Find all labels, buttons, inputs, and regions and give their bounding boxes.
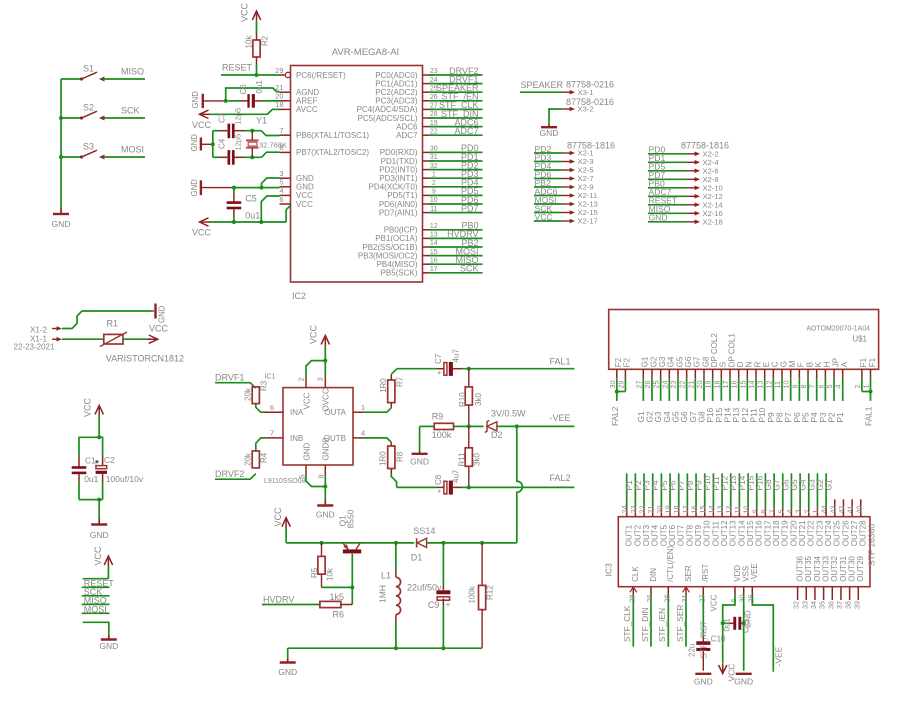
net RESET <box>221 63 280 78</box>
svg-text:44: 44 <box>820 506 829 514</box>
svg-text:28: 28 <box>430 111 438 118</box>
svg-text:G4: G4 <box>667 356 676 367</box>
connector pin X2-13 net MOSI <box>534 195 598 209</box>
svg-text:/CTL(/EN): /CTL(/EN) <box>666 545 675 581</box>
net RESET stub <box>82 578 115 588</box>
svg-text:S3: S3 <box>83 142 94 152</box>
svg-text:VCC: VCC <box>273 507 283 527</box>
IC2 pin 11 PD7(AIN1) net PD7 <box>379 203 483 217</box>
svg-text:13: 13 <box>756 381 765 389</box>
inductor L1 <box>378 543 401 648</box>
svg-text:G7: G7 <box>693 356 702 367</box>
svg-text:VCC: VCC <box>296 200 313 209</box>
svg-text:G1: G1 <box>824 479 834 490</box>
connector X1-2 <box>30 311 152 335</box>
svg-text:3k0: 3k0 <box>474 393 483 406</box>
IC2 pin 16 PB4(MISO) net MISO <box>377 255 483 269</box>
svg-text:10: 10 <box>782 381 791 389</box>
connector pin X2-7 net PD6 <box>534 169 594 183</box>
U$1 pin 18 S net P15 <box>712 362 727 423</box>
ground X1 <box>152 304 167 324</box>
IC3 pin 38 OUT30 <box>844 555 857 609</box>
svg-text:X2-18: X2-18 <box>703 217 723 226</box>
IC3 pin 9 OUT16 net P16 <box>750 473 764 546</box>
svg-text:F1: F1 <box>868 357 877 367</box>
svg-text:SER: SER <box>684 565 693 582</box>
IC2 pin 3 GND <box>279 169 314 183</box>
svg-text:11: 11 <box>773 381 782 388</box>
svg-text:VCC: VCC <box>710 594 719 611</box>
svg-text:39: 39 <box>852 601 861 609</box>
ground VSS <box>734 674 753 687</box>
svg-text:R5: R5 <box>310 567 319 578</box>
supply VCC R2 <box>240 2 261 34</box>
ground AGND <box>191 91 203 109</box>
svg-text:C2: C2 <box>104 455 115 465</box>
svg-text:SS14: SS14 <box>413 526 435 536</box>
IC2 pin 15 PB3(MOSI/OC2) net MOSI <box>358 246 483 260</box>
IC2 pin 31 PD1(TXD) net PD1 <box>381 152 483 166</box>
svg-text:IC2: IC2 <box>292 291 306 301</box>
svg-text:VCC: VCC <box>93 546 103 566</box>
svg-text:OUT22: OUT22 <box>807 520 816 546</box>
svg-text:20: 20 <box>655 506 664 514</box>
svg-text:G8: G8 <box>701 356 710 367</box>
svg-text:R8: R8 <box>396 451 405 462</box>
svg-text:OUT26: OUT26 <box>841 520 850 546</box>
connector pin X2-6 net PD5 <box>648 162 719 176</box>
svg-text:L1: L1 <box>381 571 391 581</box>
wire pin5/8 to GND <box>306 475 327 501</box>
IC3 pin 21 OUT4 net P4 <box>646 473 660 546</box>
svg-text:OUT20: OUT20 <box>789 520 798 546</box>
svg-text:100k: 100k <box>432 430 452 440</box>
supply VCC AVCC <box>192 109 280 130</box>
connector pin X2-8 net PD7 <box>648 170 719 184</box>
svg-text:VCC: VCC <box>83 397 93 417</box>
svg-text:OUT18: OUT18 <box>772 520 781 546</box>
svg-text:PB7(XTAL2/TOSC2): PB7(XTAL2/TOSC2) <box>296 148 369 157</box>
transistor Q1 8550 PNP <box>338 509 362 553</box>
svg-text:GND: GND <box>694 677 713 687</box>
svg-text:R11: R11 <box>458 452 467 467</box>
IC3 pin 27 /RST <box>697 563 710 602</box>
supply VCC converter <box>273 507 290 543</box>
svg-text:GND: GND <box>190 179 199 197</box>
connector pin X2-5 net PD4 <box>534 161 594 175</box>
IC2 pin 27 PC4(ADC4/SDA) net STF_CLK <box>357 100 483 114</box>
svg-text:R: R <box>753 361 762 367</box>
IC3 pin 36 OUT32 <box>826 555 839 609</box>
svg-text:20k: 20k <box>244 452 253 466</box>
svg-text:VARISTORCN1812: VARISTORCN1812 <box>106 354 184 364</box>
IC2 pin 28 PC5(ADC5/SCL) net STF_DIN <box>357 109 482 123</box>
svg-text:+: + <box>446 600 451 609</box>
svg-text:OUT28: OUT28 <box>859 520 868 546</box>
svg-text:Y1: Y1 <box>256 116 267 126</box>
svg-text:G3: G3 <box>658 356 667 367</box>
varistor R1 <box>100 319 184 364</box>
svg-text:S1: S1 <box>83 64 94 74</box>
svg-text:OUT32: OUT32 <box>830 555 839 581</box>
IC2 pin 19 ADC6 net ADC6 <box>396 117 482 131</box>
resistor R10 <box>458 369 483 427</box>
svg-text:HVDRV: HVDRV <box>263 595 294 605</box>
svg-text:R4: R4 <box>260 452 269 463</box>
IC3 pin 28 CLK net STF_CLK <box>622 566 640 647</box>
svg-text:-VEE: -VEE <box>750 563 759 582</box>
svg-text:1R0: 1R0 <box>379 451 388 466</box>
U$1 pin 25 G3 net G3 <box>652 356 667 422</box>
svg-text:OUT7: OUT7 <box>677 524 686 546</box>
svg-text:10k: 10k <box>326 567 335 581</box>
IC2 pin 12 PB0(ICP) net PB0 <box>384 221 483 235</box>
svg-text:-VEE: -VEE <box>550 413 571 423</box>
svg-text:21: 21 <box>646 506 655 514</box>
IC3 pin 23 OUT2 net P2 <box>629 473 643 546</box>
IC2 pin 29 PC6(/RESET) <box>275 66 346 80</box>
svg-text:OUT21: OUT21 <box>798 520 807 546</box>
IC3 pin 41 OUT27 <box>846 499 859 546</box>
U$1 pin 2 F1 <box>853 357 868 388</box>
capacitor C10 on /RST <box>688 595 727 670</box>
svg-text:C9: C9 <box>428 600 440 610</box>
svg-text:10: 10 <box>742 506 751 514</box>
svg-text:11: 11 <box>733 506 742 513</box>
driver IC3 STF16360 box <box>604 517 877 587</box>
svg-text:FAL2: FAL2 <box>610 406 620 426</box>
svg-text:0u1: 0u1 <box>723 618 732 632</box>
svg-text:SCK: SCK <box>460 264 479 274</box>
svg-text:25: 25 <box>746 595 755 603</box>
net MOSI stub <box>82 604 110 614</box>
IC3 pin 7 OUT18 net G7 <box>768 473 782 546</box>
wire switch common <box>60 79 62 208</box>
connector pin X2-18 net GND <box>648 213 723 227</box>
U$1 pin 30 F2 <box>608 357 623 388</box>
U$1 pin 5 JP net P2 <box>825 358 840 423</box>
IC3 pin 34 OUT34 <box>809 555 822 609</box>
svg-text:7: 7 <box>768 510 777 514</box>
svg-text:R3: R3 <box>260 380 269 391</box>
svg-text:VCC: VCC <box>309 324 319 344</box>
IC3 pin 26 DIN net STF_DIN <box>640 568 658 647</box>
U$1 pin 27 G1 net G1 <box>634 356 649 422</box>
wire AGND to pin21 <box>226 88 280 101</box>
capacitor C2 <box>95 437 144 499</box>
svg-text:26: 26 <box>645 595 654 603</box>
IC3 pin 14 OUT11 net P11 <box>707 473 721 546</box>
svg-text:OUT13: OUT13 <box>729 520 738 546</box>
wire gnd rail <box>288 646 482 658</box>
svg-text:OUT27: OUT27 <box>850 520 859 546</box>
svg-text:OUT34: OUT34 <box>813 555 822 581</box>
svg-text:G2: G2 <box>649 356 658 367</box>
svg-text:C8: C8 <box>434 474 443 485</box>
connector pin X2-4 net PD1 <box>648 153 719 167</box>
supply VCC X1 <box>148 324 169 344</box>
svg-text:DIN: DIN <box>649 568 658 582</box>
IC2 pin 14 PB2(SS/OC1B) net PB2 <box>362 238 482 252</box>
svg-text:C3: C3 <box>218 112 227 123</box>
capacitor C8 <box>434 469 462 498</box>
IC3 pin 32 OUT36 <box>792 555 805 609</box>
svg-text:18: 18 <box>712 381 721 389</box>
IC2 pin 9 PD5(T1) net PD5 <box>387 186 482 200</box>
svg-text:-VEE: -VEE <box>774 646 784 666</box>
svg-text:AVR-MEGA8-AI: AVR-MEGA8-AI <box>332 47 399 58</box>
connector X1-1 <box>14 335 104 352</box>
IC1 pin 3 VCC <box>316 377 331 411</box>
U$1 pin 1 F1 <box>862 357 877 388</box>
U$1 pin 9 F net P6 <box>790 362 805 422</box>
svg-text:OUT4: OUT4 <box>651 524 660 546</box>
IC2 pin 7 PB6(XTAL1/TOSC1) <box>279 126 369 140</box>
svg-text:OUT8: OUT8 <box>685 524 694 546</box>
svg-text:14: 14 <box>747 381 756 389</box>
svg-text:OUT14: OUT14 <box>737 520 746 546</box>
svg-text:OUT35: OUT35 <box>804 555 813 581</box>
svg-text:STF_/EN: STF_/EN <box>657 608 667 642</box>
svg-text:10k: 10k <box>245 35 254 49</box>
svg-text:STF_DIN: STF_DIN <box>640 607 650 642</box>
resistor R12 <box>468 543 495 648</box>
svg-text:22: 22 <box>678 381 687 389</box>
svg-text:27: 27 <box>430 103 438 110</box>
IC3 pin 1 OUT23 net G2 <box>811 473 825 546</box>
IC2 pin 13 PB1(OC1A) net HVDRV <box>375 229 482 243</box>
svg-text:8: 8 <box>799 385 808 389</box>
ground R9 <box>410 426 429 466</box>
supply VCC IC1 <box>309 324 330 377</box>
IC3 pin 42 OUT26 <box>837 499 850 546</box>
IC2 pin 17 PB5(SCK) net SCK <box>381 264 483 278</box>
svg-text:SCK: SCK <box>121 106 140 116</box>
wire U$1 F2 join net FAL2 <box>610 378 626 426</box>
connector pin X2-1 net PD2 <box>534 144 594 158</box>
svg-text:R1: R1 <box>107 319 119 329</box>
svg-text:15: 15 <box>738 381 747 389</box>
junction <box>59 116 63 159</box>
junction XTAL <box>250 129 254 160</box>
U$1 pin 10 M net P7 <box>782 360 797 422</box>
connector pin X2-10 net PB0 <box>648 179 723 193</box>
svg-text:JP: JP <box>831 358 840 367</box>
IC3 pin 30 VSS <box>738 566 751 603</box>
svg-text:OVCC: OVCC <box>322 388 331 411</box>
svg-text:P1: P1 <box>835 412 845 423</box>
U$1 pin 21 G7 net G7 <box>686 356 701 422</box>
IC2 pin 32 PD2(INT0) net PD2 <box>379 160 482 174</box>
IC2 pin 23 PC0(ADC0) net DRVF2 <box>375 66 482 80</box>
svg-text:6: 6 <box>729 599 738 603</box>
IC3 pin 20 OUT5 net P5 <box>655 473 669 546</box>
svg-text:GND: GND <box>99 641 118 651</box>
IC3 pin 25 -VEE <box>746 563 759 602</box>
U$1 pin 24 G4 net G4 <box>660 356 675 422</box>
svg-text:E: E <box>762 362 771 367</box>
wire XTAL1 net <box>213 131 280 136</box>
svg-text:6: 6 <box>270 403 274 412</box>
svg-text:AOTOM20070-1A04: AOTOM20070-1A04 <box>806 326 870 333</box>
IC1 pin 5 GND <box>298 443 312 479</box>
svg-text:OUT24: OUT24 <box>824 520 833 546</box>
capacitor C9 <box>407 543 451 648</box>
IC3 pin 4 OUT20 net G5 <box>785 473 799 546</box>
wire left vertical <box>212 131 214 158</box>
svg-text:VCC: VCC <box>149 324 169 334</box>
svg-text:C5: C5 <box>245 194 257 204</box>
svg-text:34: 34 <box>809 601 818 609</box>
svg-text:FAL1: FAL1 <box>550 356 571 366</box>
svg-text:D: D <box>736 361 745 367</box>
wire VCC rail <box>286 541 517 545</box>
svg-text:OUT9: OUT9 <box>694 524 703 546</box>
diode D2 zener <box>485 409 526 441</box>
connector X2 header left <box>567 141 615 151</box>
svg-text:0u1: 0u1 <box>245 211 260 221</box>
IC2 pin 6 VCC <box>279 195 313 209</box>
svg-text:32.768K: 32.768K <box>259 141 287 150</box>
capacitor C4 <box>218 134 243 165</box>
svg-text:16: 16 <box>690 506 699 514</box>
resistor R8 <box>379 442 405 487</box>
IC2 pin 10 PD6(AIN0) net PD6 <box>379 195 483 209</box>
crystal Y1 <box>246 116 287 158</box>
svg-text:VDD: VDD <box>733 565 742 582</box>
svg-text:7: 7 <box>270 429 274 438</box>
driver IC1 L9110SSO08 box <box>264 388 353 485</box>
resistor R3 <box>244 374 276 413</box>
svg-text:23: 23 <box>629 506 638 514</box>
switch S3 (MOSI) <box>61 142 145 160</box>
svg-text:OUT31: OUT31 <box>839 555 848 581</box>
U$1 pin 4 A net P1 <box>834 361 849 422</box>
svg-text:STF_/RST: STF_/RST <box>700 621 709 659</box>
net -VEE wire <box>752 595 783 671</box>
svg-text:G: G <box>779 361 788 367</box>
svg-text:20: 20 <box>695 381 704 389</box>
svg-text:MISO: MISO <box>121 67 144 77</box>
svg-text:C1: C1 <box>85 456 96 466</box>
svg-text:3V/0.5W: 3V/0.5W <box>491 409 526 419</box>
IC3 pin 17 OUT8 net P8 <box>681 473 695 546</box>
svg-text:OUT33: OUT33 <box>822 555 831 581</box>
U$1 pin 19 DP COL2 net P16 <box>704 333 719 423</box>
capacitor C3 <box>218 108 243 138</box>
IC3 pin 37 OUT31 <box>835 555 848 609</box>
svg-text:OUT10: OUT10 <box>703 520 712 546</box>
supply VCC IC3 down-arrow <box>719 664 737 682</box>
IC3 pin 39 OUT29 <box>852 555 865 609</box>
IC2 pin 25 PC2(ADC2) net SPEAKER <box>375 83 482 97</box>
svg-text:25: 25 <box>652 381 661 389</box>
IC3 pin 31 SER net STF_SER <box>675 565 693 647</box>
U$1 pin 20 G8 net G8 <box>695 356 710 422</box>
U$1 pin 11 G net P8 <box>773 361 788 422</box>
U$1 pin 29 F2 <box>616 357 631 388</box>
svg-text:OUT25: OUT25 <box>833 520 842 546</box>
svg-text:GND: GND <box>744 610 753 628</box>
svg-text:OUT15: OUT15 <box>746 520 755 546</box>
svg-text:FAL1: FAL1 <box>864 406 874 426</box>
svg-text:X2-17: X2-17 <box>578 217 598 226</box>
svg-text:OUT17: OUT17 <box>763 520 772 546</box>
svg-text:G1: G1 <box>641 356 650 367</box>
IC1 pin 4 OUTB <box>324 429 365 443</box>
svg-text:GNDB: GNDB <box>322 437 331 460</box>
connector pin X2-2 net PD0 <box>648 145 719 159</box>
IC3 pin 44 OUT24 net G1 <box>820 473 834 546</box>
svg-text:GND: GND <box>52 219 71 229</box>
capacitor C5 <box>227 188 261 222</box>
svg-text:VCC: VCC <box>192 228 212 238</box>
IC2 pin 5 GND <box>279 178 314 192</box>
svg-text:12p5: 12p5 <box>234 134 243 151</box>
svg-text:X3-2: X3-2 <box>578 105 594 114</box>
wire OUTB to R8 <box>364 438 391 442</box>
svg-text:22uf/50v: 22uf/50v <box>407 583 442 593</box>
svg-text:G6: G6 <box>684 356 693 367</box>
svg-text:R9: R9 <box>432 412 444 422</box>
U$1 pin 6 H net P3 <box>816 361 831 422</box>
U$1 pin 8 B net P5 <box>799 362 814 423</box>
svg-text:SPEAKER: SPEAKER <box>521 80 564 90</box>
wire VDD to VCC <box>710 594 736 663</box>
svg-text:OUT36: OUT36 <box>796 555 805 581</box>
svg-text:U$1: U$1 <box>852 335 867 344</box>
IC2 pin 24 PC1(ADC1) net DRVF1 <box>375 74 482 88</box>
svg-text:MOSI: MOSI <box>121 145 144 155</box>
svg-text:28: 28 <box>627 595 636 603</box>
svg-text:GND: GND <box>278 667 297 677</box>
wire -VEE <box>467 413 575 429</box>
svg-text:6: 6 <box>279 195 283 204</box>
svg-text:9: 9 <box>790 385 799 389</box>
svg-text:GND: GND <box>90 530 109 540</box>
svg-text:6: 6 <box>816 385 825 389</box>
svg-text:R6: R6 <box>333 610 345 620</box>
svg-text:7: 7 <box>808 385 817 389</box>
svg-text:OUT3: OUT3 <box>642 524 651 546</box>
IC1 pin 8 GND <box>317 437 331 478</box>
U$1 pin 16 D net P13 <box>730 361 745 422</box>
svg-text:22u: 22u <box>688 644 697 657</box>
U$1 pin 23 G5 net G5 <box>669 356 684 422</box>
ground converter <box>278 659 297 678</box>
wire OUTA to R7 <box>364 408 391 412</box>
svg-text:STF 16360: STF 16360 <box>867 524 877 566</box>
svg-text:2: 2 <box>297 377 306 381</box>
svg-text:DP COL1: DP COL1 <box>727 333 736 368</box>
connector pin X2-17 net VCC <box>534 212 598 226</box>
ground ISP <box>99 635 118 651</box>
U$1 pin 26 G2 net G2 <box>643 356 658 422</box>
wire AGND to junction <box>204 99 228 103</box>
svg-text:C10: C10 <box>711 635 726 644</box>
svg-text:RESET: RESET <box>222 63 253 73</box>
U$1 pin 17 DP COL1 net P14 <box>721 333 736 423</box>
svg-text:13: 13 <box>716 506 725 514</box>
svg-text:4u7: 4u7 <box>452 469 461 483</box>
svg-text:35: 35 <box>818 601 827 609</box>
IC3 pin 19 OUT6 net P6 <box>664 473 678 546</box>
svg-text:8: 8 <box>317 474 326 478</box>
svg-text:IC3: IC3 <box>604 563 614 577</box>
svg-text:19: 19 <box>664 506 673 514</box>
supply VCC ISP <box>83 546 113 579</box>
svg-text:40: 40 <box>854 506 863 514</box>
